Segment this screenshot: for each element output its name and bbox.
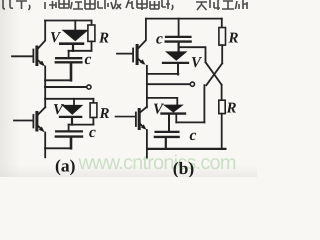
wire rail corner into R1a — [91, 21, 93, 26]
transistor Q1 gate bar — [32, 50, 34, 63]
wire crossing diagonal from junction to R2b — [206, 62, 222, 85]
wire midpoint terminal (a) — [45, 86, 87, 88]
capacitor C1a top stem — [68, 51, 70, 57]
transistor Q4 gate bar — [135, 113, 137, 127]
wire rail corner into R2a — [92, 99, 94, 103]
wire node line R2a-D2a-C2a — [69, 124, 94, 126]
svg-text:c: c — [156, 31, 163, 48]
svg-text:c: c — [89, 124, 96, 141]
transistor Q1 collector wire — [38, 21, 46, 50]
svg-text:R: R — [99, 106, 110, 122]
transistor Q1 emitter wire — [38, 60, 43, 65]
wire C1b-V1b junction branch — [179, 47, 206, 62]
wire rail of lower cell (a) — [45, 98, 93, 100]
wire R1b bottom stem — [221, 45, 223, 63]
capacitor C1a top plate — [56, 57, 81, 59]
transistor Q4 collector wire — [140, 107, 147, 113]
wire R2b bottom stem — [221, 114, 223, 149]
transistor Q2 body bar — [35, 113, 38, 131]
capacitor C2b bottom stem — [165, 138, 167, 149]
diode V2b cathode bar — [162, 112, 186, 114]
node terminal circle (a) — [87, 85, 91, 89]
diode V2b cathode stem — [168, 115, 170, 132]
transistor Q2 emitter wire — [38, 125, 43, 129]
transistor Q2 collector wire — [38, 107, 45, 115]
transistor Q3 body bar — [136, 46, 139, 64]
transistor Q4 gate lead — [116, 116, 136, 118]
wire C2a return to emitter — [45, 147, 71, 149]
wire crossing diagonal from R1b to lower cell — [206, 63, 222, 85]
capacitor C1b bottom plate — [166, 40, 191, 42]
wire top rail (a) — [45, 20, 92, 22]
svg-text:R: R — [98, 31, 109, 47]
resistor R2a bottom stem — [92, 118, 94, 125]
svg-text:www.cntronics.com: www.cntronics.com — [78, 152, 237, 174]
wire midpoint trunk (b) — [146, 66, 148, 108]
wire V1b cathode to emitter — [147, 73, 179, 75]
wire midpoint trunk (a) — [44, 67, 46, 108]
wire R1b cross horizontal to V2b cathode — [176, 121, 204, 123]
diode V1b triangle — [165, 51, 188, 60]
diode V2a anode stem — [73, 99, 75, 105]
diode V1a anode stem — [74, 21, 76, 30]
wire R2b top stem — [221, 85, 223, 100]
diode V2a triangle — [61, 105, 83, 115]
wire C1a return to emitter — [45, 79, 71, 81]
wire emitter trunk lower (b) — [146, 130, 148, 158]
transistor Q4 emitter wire — [140, 124, 144, 128]
svg-text:c: c — [85, 51, 92, 68]
resistor R2b box — [219, 100, 225, 113]
transistor Q3 emitter arrow — [140, 59, 146, 65]
diode V1a triangle — [62, 30, 89, 42]
svg-text:R: R — [228, 31, 239, 47]
svg-text:R: R — [226, 101, 237, 117]
wire emitter trunk lower (a) — [44, 133, 46, 158]
svg-text:c: c — [190, 127, 197, 144]
resistor R2a box — [90, 103, 97, 118]
capacitor C1b bottom stem — [178, 43, 180, 51]
diode V2a cathode stem — [71, 118, 73, 125]
resistor R1a box — [88, 25, 95, 41]
capacitor C2a top stem — [68, 125, 70, 131]
wire rail corner into R1b — [221, 19, 223, 28]
capacitor C1a bottom plate — [56, 61, 82, 63]
transistor Q4 emitter arrow — [141, 124, 147, 129]
capacitor C2a top plate — [56, 130, 82, 132]
diode V2a cathode bar — [60, 116, 81, 118]
transistor Q1 emitter arrow — [39, 61, 45, 67]
transistor Q2 emitter arrow — [39, 127, 45, 133]
wire R1b cross vertical down — [203, 85, 205, 122]
svg-text:(a): (a) — [55, 156, 76, 176]
diode V1b cathode bar — [163, 62, 188, 64]
capacitor C1b top stem — [178, 19, 180, 36]
diode V1a cathode bar — [60, 42, 83, 45]
capacitor C2a bottom plate — [56, 135, 82, 137]
diode V1a cathode stem — [72, 45, 74, 51]
wire lower-cell rail (b) — [147, 98, 177, 105]
transistor Q3 collector wire — [138, 19, 146, 49]
diode V2b triangle — [163, 105, 184, 113]
capacitor C2b bottom plate — [155, 136, 179, 138]
node terminal circle (b) — [190, 82, 194, 86]
resistor R1a bottom stem — [91, 41, 93, 50]
wire node line R1a-D1a-C1a — [69, 50, 92, 52]
wire top rail (b) — [146, 18, 222, 20]
svg-text:(b): (b) — [173, 158, 195, 177]
transistor Q2 gate bar — [32, 115, 34, 128]
diode V1b cathode stem — [177, 64, 179, 74]
cropped caption text row (top) — [3, 0, 247, 10]
transistor Q1 body bar — [35, 47, 38, 65]
transistor Q2 gate lead — [14, 120, 32, 122]
transistor Q3 gate bar — [132, 49, 134, 62]
capacitor C2b top plate — [156, 131, 179, 133]
capacitor C1a bottom stem — [70, 63, 73, 80]
wire bottom rail (b) — [148, 148, 225, 150]
capacitor C1b top plate — [166, 36, 190, 38]
capacitor C2a bottom stem — [70, 138, 73, 149]
transistor Q3 emitter wire — [138, 59, 143, 63]
wire midpoint terminal (b) — [147, 83, 190, 85]
transistor Q4 body bar — [138, 110, 141, 129]
wire V2b cathode riser to cross wire — [175, 115, 177, 123]
resistor R1b box — [219, 28, 226, 46]
transistor Q3 gate lead — [117, 53, 132, 55]
transistor Q1 gate lead — [12, 55, 32, 57]
